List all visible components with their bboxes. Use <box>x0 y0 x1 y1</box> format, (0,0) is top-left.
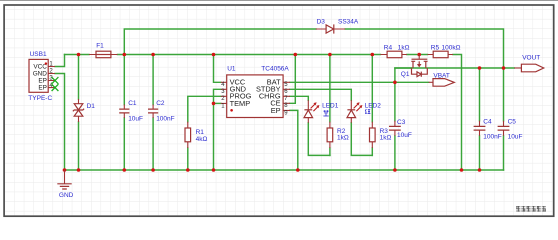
svg-text:D1: D1 <box>87 103 96 110</box>
svg-text:C1: C1 <box>128 100 137 107</box>
U1 right pin numbers <box>284 82 288 116</box>
svg-text:TYPE-C: TYPE-C <box>28 95 52 102</box>
wire: main VCC rail y=54.5 left of fuse <box>65 54 90 56</box>
resistor R4 <box>380 51 407 58</box>
wire: D1 column <box>78 55 80 171</box>
svg-text:C2: C2 <box>156 100 165 107</box>
svg-text:TC4056A: TC4056A <box>261 65 289 72</box>
svg-text:10uF: 10uF <box>508 134 523 141</box>
wire: ground rail y=170 <box>65 169 504 171</box>
svg-text:SS34A: SS34A <box>338 19 359 26</box>
capacitor C2 <box>148 105 158 119</box>
svg-text:1kΩ: 1kΩ <box>380 135 392 142</box>
svg-text:TEMP: TEMP <box>230 99 251 108</box>
label blue-char (蓝) under LED1 <box>323 110 328 116</box>
U1 left pin stubs <box>221 82 227 103</box>
resistor R3 <box>370 122 376 148</box>
wire: R2 column from rail <box>329 55 331 156</box>
resistor R2 <box>327 122 333 148</box>
wire: TEMP pin to node <box>214 102 221 104</box>
wire: U1 VCC column from rail <box>214 55 221 83</box>
fuse F1 <box>89 51 118 58</box>
wire: C4 column <box>479 68 481 170</box>
wire: BAT node up to Q1 left terminal <box>395 68 412 82</box>
svg-text:10uF: 10uF <box>397 132 412 139</box>
wire: R5 right to ground vertical <box>453 55 462 171</box>
label red-char (红) under LED2 <box>365 109 370 114</box>
wire: EP pin down to ground rail <box>290 110 298 170</box>
wire: C2 column <box>152 55 154 171</box>
svg-text:1kΩ: 1kΩ <box>398 44 410 51</box>
IC U1 TC4056A body <box>227 75 283 118</box>
net flag VOUT <box>514 64 543 72</box>
svg-text:LED1: LED1 <box>322 103 339 110</box>
no-connect X on USB1 pin 3 <box>52 77 59 84</box>
wire: CHRG pin to LED1 top <box>290 96 308 100</box>
junction dots on VOUT rail <box>478 66 506 70</box>
LED2 <box>347 100 362 123</box>
U1 right pin stubs <box>283 82 290 110</box>
svg-text:C5: C5 <box>508 119 517 126</box>
svg-text:GND: GND <box>59 192 74 199</box>
svg-text:GND: GND <box>33 70 48 77</box>
wire: U1 GND pin down to TEMP node and ground rail <box>214 89 221 170</box>
svg-text:EP: EP <box>271 106 281 115</box>
connector USB1 body <box>29 59 48 92</box>
svg-text:C3: C3 <box>397 119 406 126</box>
TVS diode D1 <box>73 99 84 122</box>
svg-text:EP: EP <box>38 77 47 84</box>
resistor R1 <box>185 122 191 148</box>
junction dot VBAT node <box>393 81 397 85</box>
ground symbol <box>57 170 71 189</box>
capacitor C1 <box>119 105 129 119</box>
svg-text:10uF: 10uF <box>128 116 143 123</box>
resistor R5 <box>428 51 454 58</box>
USB1 pin-1 marker dot <box>45 62 47 64</box>
svg-text:100nF: 100nF <box>156 116 174 123</box>
USB1 pin stubs <box>48 67 55 88</box>
svg-text:VOUT: VOUT <box>522 55 540 62</box>
U1 pin-1 marker dot <box>230 109 233 112</box>
junction dots on ground rail <box>63 168 482 172</box>
wire: LED1 bottom to R2 bottom <box>308 123 330 156</box>
svg-text:100kΩ: 100kΩ <box>442 44 461 51</box>
transistor Q1 PMOS <box>411 55 427 77</box>
capacitor C3 <box>389 121 401 136</box>
wire: CE pin up to main rail <box>290 55 295 104</box>
U1 left pin numbers <box>221 82 225 109</box>
wire: R4 to gate node to R5 <box>407 54 428 56</box>
wire: VOUT rail y=68 from Q1 to VOUT flag <box>395 67 514 69</box>
svg-text:LED2: LED2 <box>365 103 382 110</box>
net flag VBAT <box>429 79 455 87</box>
wire: BAT pin to VBAT node <box>290 81 429 83</box>
wire: C1 column <box>123 55 125 171</box>
junction dots on main rail <box>77 53 421 57</box>
title text 电源路径管理 <box>516 206 546 212</box>
wire: LED2 bottom to R3 bottom <box>351 123 372 156</box>
svg-text:Q1: Q1 <box>401 71 410 78</box>
wire: STDBY pin to LED2 top <box>290 89 351 100</box>
capacitor C4 <box>474 121 486 136</box>
svg-text:EP: EP <box>38 85 47 92</box>
schottky diode D3 <box>316 24 345 33</box>
wire: top bypass rail right of D3 down to VOUT rail <box>345 29 503 68</box>
svg-text:R4: R4 <box>384 44 393 51</box>
wire: C3 column from BAT node <box>394 82 396 170</box>
svg-text:VBAT: VBAT <box>433 72 450 79</box>
svg-text:100nF: 100nF <box>483 134 501 141</box>
USB1 pin numbers <box>49 62 53 89</box>
capacitor C5 <box>498 121 510 136</box>
junction dot GND/TEMP node <box>212 102 216 106</box>
wire: top bypass rail via D3 <box>124 29 316 55</box>
no-connect X on USB1 pin 4 <box>52 84 59 91</box>
wire: USB GND pin2 down to ground rail <box>55 74 65 171</box>
wire: USB VCC pin1 to main rail <box>55 55 65 67</box>
svg-text:D3: D3 <box>317 19 326 26</box>
svg-text:R1: R1 <box>196 129 205 136</box>
svg-text:1kΩ: 1kΩ <box>337 135 349 142</box>
svg-text:4kΩ: 4kΩ <box>196 136 208 143</box>
LED1 <box>304 100 319 123</box>
svg-text:R5: R5 <box>431 44 440 51</box>
svg-text:C4: C4 <box>483 119 492 126</box>
svg-text:U1: U1 <box>227 65 236 72</box>
svg-text:F1: F1 <box>96 43 104 50</box>
svg-text:USB1: USB1 <box>30 51 47 58</box>
wire: main VCC rail from fuse to R4 <box>118 54 381 56</box>
wire: C5 column <box>503 68 505 170</box>
wire: R3 column from rail <box>371 55 373 156</box>
top window edge hairline <box>0 0 558 2</box>
wire: R1 column from PROG pin <box>188 96 221 170</box>
